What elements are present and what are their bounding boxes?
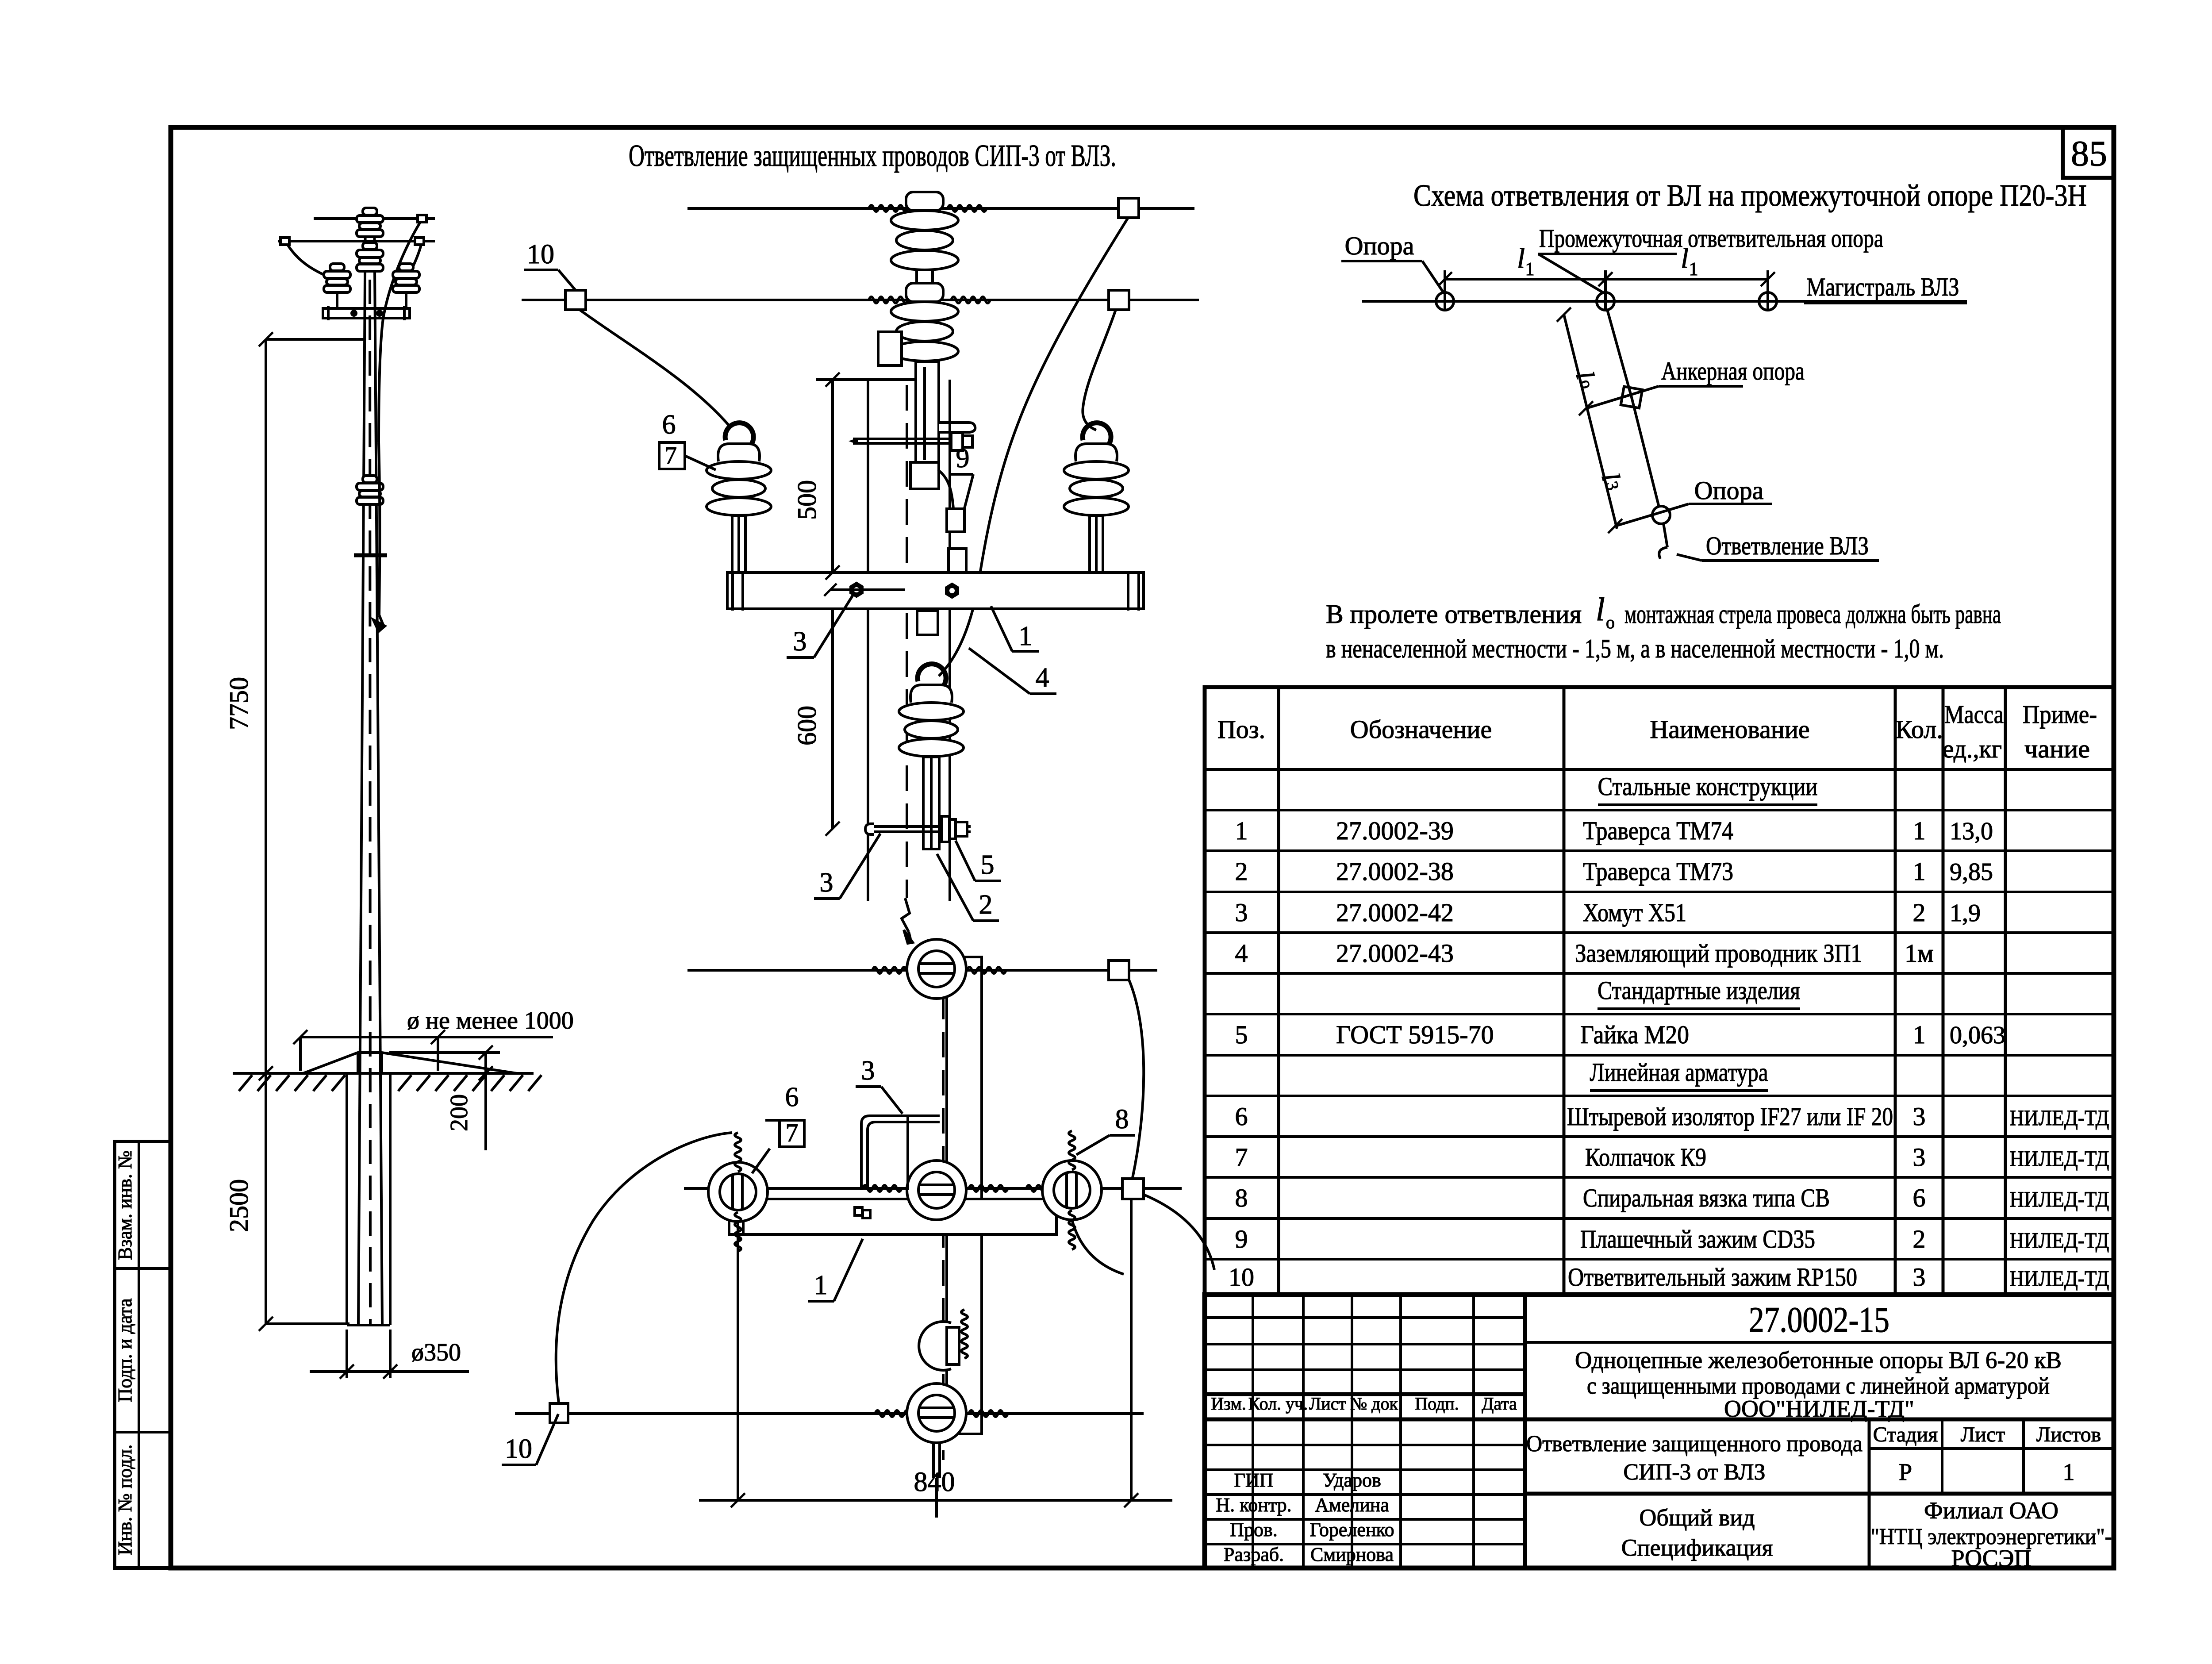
svg-text:13,0: 13,0 [1950,818,1993,845]
svg-text:10: 10 [505,1434,532,1464]
svg-text:9: 9 [956,443,970,473]
svg-text:Спиральная вязка типа СВ: Спиральная вязка типа СВ [1583,1184,1830,1212]
svg-text:500: 500 [792,480,822,520]
svg-text:3: 3 [861,1056,875,1086]
svg-text:3: 3 [1913,1263,1926,1291]
svg-text:3: 3 [1913,1143,1926,1172]
svg-text:с защищенными проводами с лине: с защищенными проводами с линейной армат… [1587,1372,2050,1399]
svg-text:Стандартные изделия: Стандартные изделия [1598,976,1800,1005]
svg-text:1: 1 [1913,1020,1926,1049]
svg-text:Плашечный зажим CD35: Плашечный зажим CD35 [1580,1225,1815,1253]
plan: label 3 [856,1056,902,1114]
svg-text:Амелина: Амелина [1315,1494,1389,1516]
svg-text:Дата: Дата [1482,1394,1517,1414]
svg-text:27.0002-39: 27.0002-39 [1336,816,1454,845]
svg-text:№ док.: № док. [1350,1394,1402,1414]
svg-text:6: 6 [785,1082,799,1112]
svg-text:2: 2 [1235,857,1248,886]
drop wire right clamp to right insulator (front view) [1083,310,1116,430]
svg-text:7: 7 [664,442,677,469]
svg-text:27.0002-38: 27.0002-38 [1336,857,1454,886]
svg-text:l: l [1517,242,1525,274]
svg-text:6: 6 [1913,1184,1926,1212]
label 3 lower (front view) [814,834,880,899]
svg-text:Ответвление ВЛЗ: Ответвление ВЛЗ [1706,531,1869,560]
plan: center pole circle [907,1161,966,1220]
svg-text:Приме-: Приме- [2023,700,2097,729]
svg-text:2: 2 [1913,898,1926,927]
pole (front view) [868,380,950,901]
svg-text:27.0002-43: 27.0002-43 [1336,939,1454,968]
top phase wire (front view) [687,198,1194,218]
title block names [1216,1469,1394,1565]
svg-text:Опора: Опора [1345,231,1414,260]
label 3 upper (front view) [787,595,853,657]
note text line 1 [1326,592,2001,632]
svg-text:Подп. и дата: Подп. и дата [114,1298,136,1402]
svg-text:Ударов: Ударов [1323,1469,1381,1491]
border frame [171,127,2114,1568]
plan: bottom wire [515,1403,1144,1423]
plan: horizontal crossarm TM74 [729,1197,1056,1236]
svg-text:НИЛЕД-ТД: НИЛЕД-ТД [2010,1266,2109,1291]
plan: branch curve from bottom clamp to left insulator [556,1133,732,1403]
lower insulator on pole (left pole view) [357,476,383,504]
svg-text:6: 6 [1235,1102,1248,1131]
svg-text:1: 1 [1913,816,1926,845]
insulator pin assembly (front view) [910,362,939,489]
note text line 2 [1326,634,1944,663]
svg-text:1: 1 [1235,816,1248,845]
specification table grid [1205,687,2114,1295]
drop wire left (left pole view) [288,245,335,280]
svg-text:Штыревой изолятор IF27 или IF: Штыревой изолятор IF27 или IF 20 [1567,1102,1893,1131]
svg-text:Гореленко: Гореленко [1310,1519,1394,1541]
table rows text [1229,772,2109,1291]
svg-text:Инв. № подл.: Инв. № подл. [114,1445,136,1556]
svg-text:Промежуточная ответвительная о: Промежуточная ответвительная опора [1539,224,1883,253]
pole clamp marks (left pole view) [354,442,387,631]
svg-text:Филиал ОАО: Филиал ОАО [1924,1497,2058,1524]
clamp box under crossarm (front view) [917,611,938,635]
svg-text:РОСЭП: РОСЭП [1951,1545,2031,1572]
crossarm insulator right IF27 (front view) [1064,423,1129,573]
plan: P-clamp above bottom circle [919,1310,968,1370]
sheet number box 85 [2063,127,2114,178]
svg-text:Смирнова: Смирнова [1310,1544,1394,1565]
svg-text:Хомут Х51: Хомут Х51 [1583,898,1686,927]
dimension 2500 [224,1073,349,1331]
svg-text:3: 3 [793,626,807,657]
schema label Opora left [1341,231,1443,292]
svg-text:l: l [1596,592,1605,628]
svg-text:в ненаселенной местности - 1,5: в ненаселенной местности - 1,5 м, а в на… [1326,634,1944,663]
plan: label 1 [808,1239,863,1301]
plan: curve from right clamp down [1144,1195,1214,1270]
svg-text:Пров.: Пров. [1230,1519,1278,1541]
schema label Opora right [1615,476,1772,526]
svg-text:Траверса ТМ73: Траверса ТМ73 [1583,857,1733,886]
top insulator (front view) [891,192,958,284]
wire second (left pole view) [278,238,435,245]
svg-text:Поз.: Поз. [1217,715,1265,744]
svg-text:1: 1 [1525,259,1535,280]
svg-text:6: 6 [662,410,676,440]
svg-text:85: 85 [2071,133,2107,173]
svg-text:Обозначение: Обозначение [1350,715,1492,744]
svg-text:10: 10 [1229,1263,1254,1291]
svg-text:840: 840 [914,1467,955,1497]
schema label Ankernaya opora [1586,357,1805,408]
plan: label 8 [1076,1104,1135,1155]
svg-text:ед.,кг: ед.,кг [1943,734,2002,763]
underground casing [347,1073,390,1325]
svg-text:ООО"НИЛЕД-ТД": ООО"НИЛЕД-ТД" [1724,1395,1914,1422]
svg-text:Р: Р [1899,1459,1912,1485]
label 2 (front view) [937,854,999,921]
title block grid [1205,1293,2114,1568]
label 4 (front view) [969,648,1056,694]
schema label Magistral VLZ [1804,273,1967,303]
title block sheet name [1526,1431,1863,1485]
svg-text:НИЛЕД-ТД: НИЛЕД-ТД [2010,1228,2109,1253]
svg-text:0,063: 0,063 [1950,1022,2005,1049]
pole break symbol (front view) [902,898,913,943]
dimension "ø не менее 1000" [293,1007,574,1071]
svg-text:3: 3 [1235,898,1248,927]
svg-text:Ответвление защищенных проводо: Ответвление защищенных проводов СИП-3 от… [629,139,1116,173]
svg-text:ø350: ø350 [411,1339,461,1366]
svg-text:НИЛЕД-ТД: НИЛЕД-ТД [2010,1105,2109,1130]
svg-text:ø не менее 1000: ø не менее 1000 [407,1007,574,1034]
pin side plate (front view) [878,332,902,365]
label 9 with CD35 clamps (front view) [938,443,973,603]
lower insulator (front view) [899,664,964,849]
svg-text:1м: 1м [1905,939,1934,968]
title block project name [1575,1347,2062,1422]
svg-text:НИЛЕД-ТД: НИЛЕД-ТД [2010,1146,2109,1171]
svg-text:Стадия: Стадия [1873,1423,1938,1446]
svg-text:Заземляющий проводник ЗП1: Заземляющий проводник ЗП1 [1575,939,1862,968]
svg-text:Спецификация: Спецификация [1621,1534,1773,1561]
plan: bottom pole circle [907,1383,966,1518]
svg-text:Общий вид: Общий вид [1639,1504,1755,1531]
svg-text:Кол.: Кол. [1895,715,1943,744]
svg-text:Кол. уч.: Кол. уч. [1248,1394,1308,1414]
plan: right insulator circle [1042,1131,1102,1249]
svg-text:Н. контр.: Н. контр. [1216,1494,1291,1516]
dimension 200 [389,1045,500,1150]
drop wire left clamp to left insulator (front view) [580,310,729,426]
ground line and hatching [233,1073,541,1091]
schema label Otvetvlenie VLZ [1677,531,1879,561]
svg-text:ГОСТ 5915-70: ГОСТ 5915-70 [1336,1020,1494,1049]
plan: dimension 840 [699,1199,1172,1507]
crossarm insulator left (left pole view) [324,264,350,310]
svg-text:Наименование: Наименование [1650,715,1809,744]
svg-text:ГИП: ГИП [1234,1469,1274,1491]
label 1 (front view) [991,606,1039,651]
svg-text:2: 2 [1913,1225,1926,1253]
left stamp column boxes [114,1141,171,1568]
svg-text:200: 200 [445,1094,473,1131]
svg-text:В пролете ответвления: В пролете ответвления [1326,600,1582,629]
svg-text:8: 8 [1115,1104,1129,1134]
pole shaft (left pole view) [358,208,382,1324]
clamp X51 and bolt (front view) [865,816,971,842]
svg-text:Взам. инв. №: Взам. инв. № [114,1150,136,1260]
foundation berm [303,1053,517,1073]
schema pole circles [1436,292,1777,310]
svg-text:Изм.: Изм. [1211,1394,1246,1414]
svg-text:2: 2 [979,890,993,920]
svg-text:4: 4 [1036,663,1049,693]
svg-text:3: 3 [820,868,833,898]
svg-text:Колпачок К9: Колпачок К9 [1585,1143,1706,1172]
second insulator (left pole view) [357,242,383,271]
svg-text:Анкерная опора: Анкерная опора [1661,357,1805,385]
svg-text:5: 5 [981,850,995,880]
svg-text:1: 1 [1019,621,1033,651]
plan: left insulator circle [708,1133,768,1251]
svg-text:Листов: Листов [2036,1423,2101,1446]
schema branch dimension line [1557,307,1625,533]
plan: vertical crossarm TM73 [943,956,982,1460]
plan: top line wire [687,961,1157,1178]
svg-text:600: 600 [792,706,822,746]
title block header texts [1211,1394,1517,1414]
svg-text:НИЛЕД-ТД: НИЛЕД-ТД [2010,1187,2109,1211]
dimension 600 (front view) [792,609,840,836]
svg-text:1: 1 [1689,259,1698,280]
svg-text:7: 7 [1235,1143,1248,1172]
drawing title [629,139,1116,173]
schema span dimension line l1 l1 [1438,242,1775,310]
crossarm bolts (front view) [824,583,958,597]
through bolt at pole top (front view) [849,433,972,450]
svg-text:Ответвление защищенного провод: Ответвление защищенного провода [1526,1431,1863,1456]
plan: curve from middle right area [1072,1220,1124,1274]
svg-text:1: 1 [1913,857,1926,886]
svg-text:Лист: Лист [1309,1394,1346,1414]
svg-text:3: 3 [1913,1102,1926,1131]
svg-text:Магистраль ВЛЗ: Магистраль ВЛЗ [1807,273,1959,301]
plan: ground clamp symbol [855,1207,870,1218]
middle phase wire (front view) [522,290,1199,310]
plan: grounding conductor ZP1 [861,1116,940,1190]
svg-text:Линейная арматура: Линейная арматура [1590,1058,1768,1087]
svg-text:8: 8 [1235,1184,1248,1212]
svg-text:Лист: Лист [1961,1423,2005,1446]
crossarm (left pole view) [323,306,410,320]
dimension 7750 [224,332,364,1080]
label 5 (front view) [956,841,1001,881]
svg-text:Схема ответвления от ВЛ на про: Схема ответвления от ВЛ на промежуточной… [1413,179,2087,213]
svg-text:1,9: 1,9 [1950,899,1981,927]
svg-text:Опора: Опора [1694,476,1764,505]
title block view name [1621,1504,1773,1561]
svg-text:СИП-3 от ВЛЗ: СИП-3 от ВЛЗ [1623,1460,1765,1485]
svg-text:4: 4 [1235,939,1248,968]
svg-text:Масса: Масса [1944,700,2004,729]
pole top flag bracket (front view) [939,423,975,432]
svg-text:7: 7 [786,1118,799,1147]
svg-text:5: 5 [1235,1020,1248,1049]
svg-text:9,85: 9,85 [1950,858,1993,886]
schema label intermediate branch pole [1538,224,1883,293]
crossarm TM74 (front view) [727,571,1144,611]
branch wire from top clamp (front view) [939,218,1128,676]
svg-text:Ответвительный зажим RP150: Ответвительный зажим RP150 [1568,1263,1857,1291]
svg-text:Гайка М20: Гайка М20 [1580,1020,1689,1049]
table header texts [1217,700,2097,763]
svg-text:Подп.: Подп. [1415,1394,1459,1414]
drop wire right (left pole view) [407,245,421,279]
svg-text:Разраб.: Разраб. [1224,1544,1284,1565]
drop wire from top (left pole view) [379,222,420,442]
svg-text:Одноцепные железобетонные опор: Одноцепные железобетонные опоры ВЛ 6-20 … [1575,1347,2062,1373]
title block stage grid texts [1873,1423,2101,1485]
title block document number [1749,1299,1889,1340]
dimension ø350 [310,1330,469,1379]
svg-text:9: 9 [1235,1225,1248,1253]
svg-text:27.0002-42: 27.0002-42 [1336,898,1454,927]
svg-text:27.0002-15: 27.0002-15 [1749,1299,1889,1340]
schema main line (magistral) [1362,300,1967,303]
svg-text:10: 10 [527,239,554,269]
top insulator (left pole view) [357,208,383,237]
svg-text:монтажная стрела провеса должн: монтажная стрела провеса должна быть рав… [1624,600,2001,629]
plan: label 10 [502,1414,558,1465]
labels 6 7 (front view) [659,410,716,470]
svg-text:Стальные конструкции: Стальные конструкции [1598,772,1818,801]
dimension 500 (front view) [792,373,868,580]
wire top (left pole view) [314,215,435,222]
title block organization [1871,1497,2112,1572]
schema title [1413,179,2087,213]
svg-text:чание: чание [2024,734,2090,763]
svg-text:1: 1 [2063,1459,2075,1485]
crossarm insulator left IF27 (front view) [707,423,771,573]
svg-text:2500: 2500 [224,1179,253,1232]
plan: labels 6 7 [752,1082,804,1173]
second insulator (front view) [891,283,958,361]
svg-text:1: 1 [814,1270,828,1300]
schema branch line [1607,310,1670,559]
plan: top pole circle [907,939,966,999]
crossarm insulator right (left pole view) [393,264,419,310]
svg-text:o: o [1606,612,1615,632]
svg-text:Траверса ТМ74: Траверса ТМ74 [1583,816,1733,845]
svg-text:7750: 7750 [224,677,253,730]
plan: middle wire [684,1179,1182,1199]
label 10 (front view) [524,239,576,290]
